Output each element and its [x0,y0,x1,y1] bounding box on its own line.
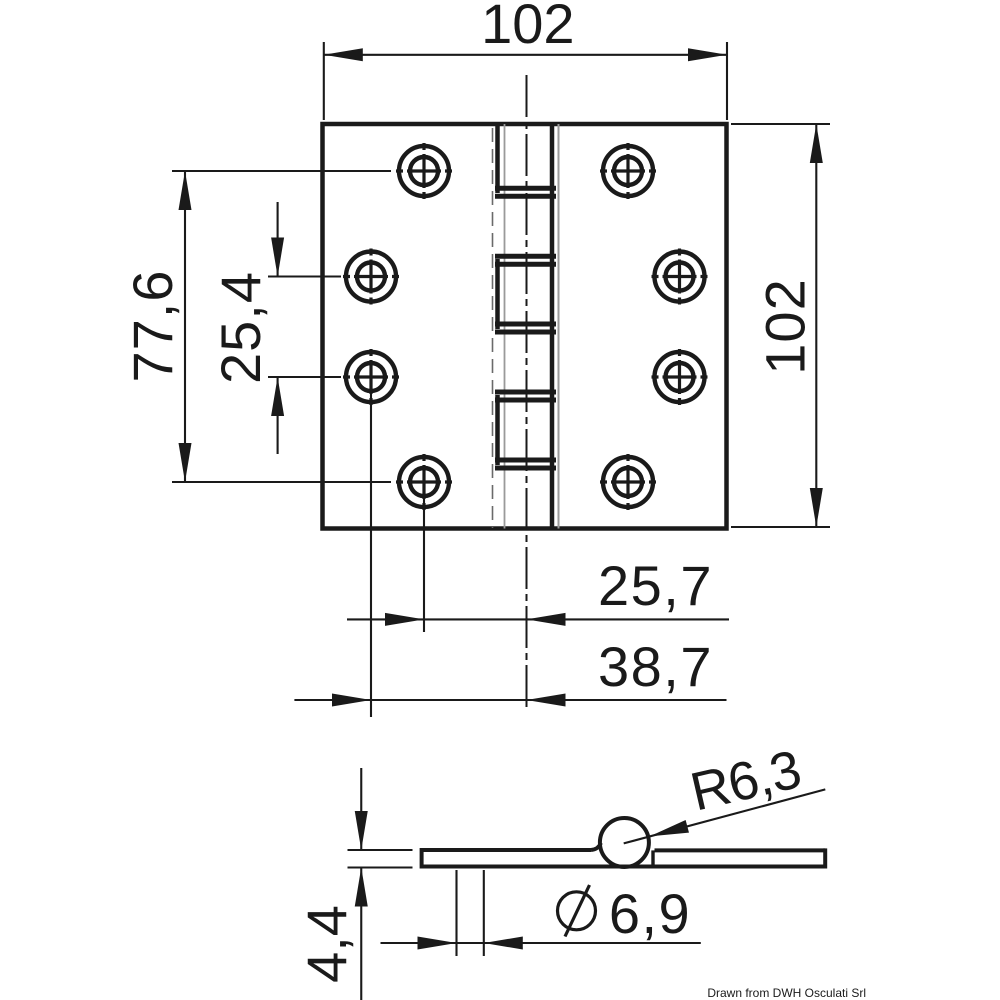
svg-text:6,9: 6,9 [609,882,691,945]
svg-text:25,4: 25,4 [209,271,272,384]
svg-text:77,6: 77,6 [121,270,184,383]
svg-text:38,7: 38,7 [598,635,713,698]
svg-text:102: 102 [481,0,574,55]
svg-text:4,4: 4,4 [295,905,358,983]
svg-text:Drawn from DWH Osculati Srl: Drawn from DWH Osculati Srl [707,986,866,1000]
svg-text:102: 102 [754,278,817,374]
svg-text:25,7: 25,7 [598,554,713,617]
